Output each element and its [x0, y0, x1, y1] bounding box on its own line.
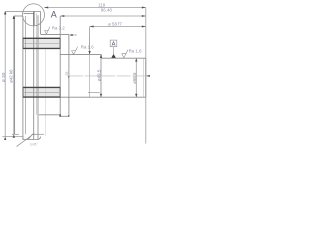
- svg-text:⌀58.5: ⌀58.5: [132, 72, 137, 84]
- svg-text:A: A: [51, 10, 57, 20]
- svg-text:Ra 3.2: Ra 3.2: [52, 25, 65, 30]
- svg-text:25: 25: [65, 72, 69, 76]
- svg-text:⌀42 k6: ⌀42 k6: [9, 69, 14, 83]
- svg-text:Ra 1.6: Ra 1.6: [129, 49, 142, 54]
- svg-text:⌀ 58 f7: ⌀ 58 f7: [108, 21, 122, 26]
- svg-text:1x45°: 1x45°: [30, 142, 39, 146]
- svg-text:Ra 1.6: Ra 1.6: [81, 44, 94, 49]
- svg-text:⌀ 30: ⌀ 30: [1, 72, 7, 82]
- svg-text:⌀49.5: ⌀49.5: [96, 69, 101, 81]
- svg-text:96.48: 96.48: [101, 7, 113, 12]
